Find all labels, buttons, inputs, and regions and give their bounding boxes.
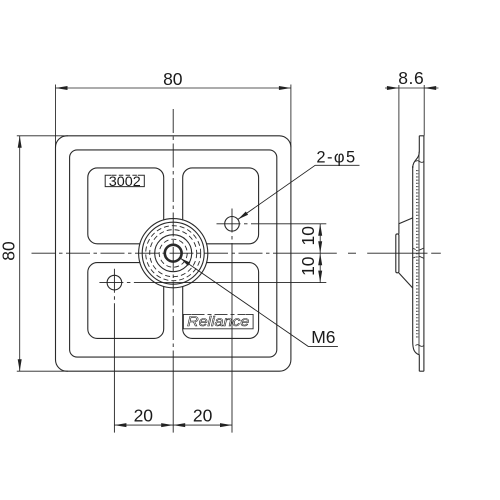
arrow 80 left bottom — [18, 359, 22, 371]
side thread mark lower left — [413, 257, 415, 258]
side rubber dotted texture column 1 — [416, 170, 418, 339]
M6 tapped hole — [165, 245, 182, 262]
svg-text:20: 20 — [134, 405, 154, 425]
horizontal center line main view — [32, 252, 291, 254]
svg-text:3002: 3002 — [109, 174, 141, 189]
side bottom edge — [419, 370, 424, 372]
side break squiggle lower — [416, 345, 424, 347]
arrow 80 left top — [18, 136, 22, 148]
boss white mask disc — [139, 219, 207, 287]
dim 80 top line — [56, 87, 291, 89]
dim 8.6 extension line right — [423, 85, 425, 136]
hole top-right 5mm — [225, 217, 240, 232]
side panel face — [412, 166, 414, 341]
svg-text:20: 20 — [193, 405, 213, 425]
arrow 80 top left — [56, 86, 68, 90]
logo box dashed top edge — [192, 313, 246, 315]
center lines — [32, 109, 291, 371]
side boss lower cone — [399, 273, 413, 288]
label 3002 box brackets — [105, 175, 144, 186]
boss tip circle r18.5 — [155, 235, 192, 272]
svg-text:80: 80 — [163, 69, 183, 89]
arrow 8.6 right — [424, 86, 436, 90]
svg-text:80: 80 — [0, 241, 19, 261]
label 3002 box dashed top edge — [112, 174, 138, 176]
side view center line dash 2 — [367, 252, 427, 254]
pad top-left — [88, 168, 164, 244]
side view center line dash 1 — [348, 252, 356, 254]
side boss tab — [396, 234, 399, 273]
boss hidden circle r23.5 — [150, 230, 197, 277]
boss outer circle — [139, 219, 208, 288]
plate outer outline — [56, 136, 291, 371]
dim 80 left extension line top — [17, 135, 68, 137]
arrow leader M6 — [180, 258, 190, 266]
dim 80 top extension line right — [290, 85, 292, 148]
side rim face lower — [413, 341, 420, 371]
hole TR horizontal center line — [217, 223, 254, 225]
side view — [396, 136, 424, 371]
hole TR vertical center line — [231, 209, 233, 253]
svg-text:10: 10 — [298, 256, 318, 276]
side thread mark upper left — [413, 248, 415, 249]
extension line hole BL vertical — [113, 312, 115, 433]
dim 8.6 line — [385, 87, 439, 89]
boss circle r31 — [142, 222, 204, 284]
dim 80 top extension line left — [55, 85, 57, 148]
side rubber dotted texture column 2 — [417, 170, 419, 339]
arrow 10 bottom down — [318, 271, 322, 283]
vertical center line main view — [172, 109, 174, 371]
svg-text:10: 10 — [298, 226, 318, 246]
hole bottom-left 5mm — [107, 275, 122, 290]
arrow 8.6 left — [387, 86, 399, 90]
hole BL horizontal center line — [99, 282, 141, 284]
arrow 20 center pair — [161, 423, 173, 427]
svg-text:2-φ5: 2-φ5 — [316, 149, 356, 167]
side boss upper cone — [399, 218, 413, 234]
arrow 80 top right — [279, 86, 291, 90]
side top edge — [419, 135, 424, 137]
extension line center horizontal right of plate — [291, 252, 337, 254]
boss hidden circle r14 — [159, 239, 187, 267]
dim 80 left line — [19, 136, 21, 371]
arrow 10 center pair — [318, 241, 322, 253]
dimensions — [17, 85, 439, 426]
boss hidden circle r27.5 — [146, 226, 201, 281]
side rubber sheet right edge — [418, 152, 420, 355]
arrow 20 right — [220, 423, 232, 427]
side thread mark upper right — [419, 248, 424, 250]
side back face — [423, 136, 425, 371]
arrow leader phi5 — [238, 212, 248, 220]
logo box brackets — [183, 314, 253, 328]
arrow 10 top up — [318, 224, 322, 236]
svg-text:8.6: 8.6 — [398, 68, 424, 88]
side break squiggle upper — [416, 161, 424, 163]
arrow 20 left — [114, 423, 126, 427]
extension line center vertical below plate — [172, 371, 174, 432]
svg-text:M6: M6 — [311, 327, 335, 347]
side rim face upper — [413, 136, 420, 168]
hole BL vertical center line — [113, 269, 115, 312]
dim 8.6 extension line left — [398, 85, 400, 224]
pad top-right — [183, 168, 259, 244]
leader M6 — [180, 258, 338, 346]
side thread mark lower right — [419, 256, 424, 258]
side view center line dash 3 — [431, 252, 441, 254]
pad bottom-right — [183, 263, 259, 339]
dim 20 20 line — [114, 424, 232, 426]
extension line hole TR vertical — [231, 252, 233, 433]
arrowheads — [18, 86, 437, 427]
leader 2-phi5 — [238, 165, 360, 219]
svg-text:Reliance: Reliance — [187, 313, 249, 329]
plate inner raised edge — [70, 150, 277, 357]
dim 80 left extension line bottom — [17, 370, 68, 372]
pad bottom-left — [88, 263, 164, 339]
extension line hole TR horizontal — [253, 223, 326, 225]
dim 10 10 line — [319, 224, 321, 283]
extension line hole BL horizontal — [141, 282, 326, 284]
